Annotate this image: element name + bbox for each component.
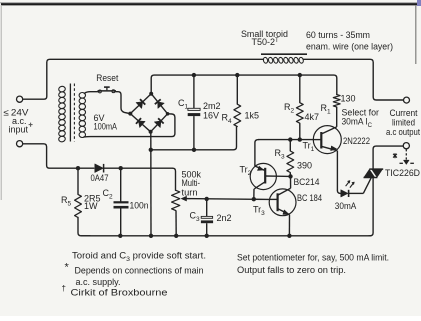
- svg-text:limited: limited: [392, 118, 415, 128]
- svg-text:BC214: BC214: [294, 177, 320, 187]
- svg-text:Set potentiometer for, say, 50: Set potentiometer for, say, 500 mA limit…: [237, 252, 389, 262]
- svg-text:30mA: 30mA: [335, 201, 357, 212]
- svg-text:60 turns - 35mm: 60 turns - 35mm: [306, 30, 370, 40]
- svg-text:4k7: 4k7: [305, 112, 320, 122]
- svg-text:1W: 1W: [84, 201, 98, 211]
- svg-text:a.c output: a.c output: [386, 127, 420, 137]
- svg-text:390: 390: [297, 161, 312, 171]
- svg-text:Cirkit of Broxbourne: Cirkit of Broxbourne: [71, 288, 168, 298]
- svg-text:enam. wire (one layer): enam. wire (one layer): [306, 42, 393, 52]
- svg-text:0A47: 0A47: [91, 173, 109, 183]
- svg-text:130: 130: [341, 94, 356, 104]
- svg-text:1k5: 1k5: [245, 110, 260, 120]
- svg-text:a.c. supply.: a.c. supply.: [76, 277, 121, 287]
- svg-text:turn: turn: [182, 187, 198, 197]
- svg-text:2n2: 2n2: [217, 213, 232, 223]
- svg-text:Reset: Reset: [96, 73, 118, 83]
- svg-text:2m2: 2m2: [203, 101, 221, 111]
- svg-text:16V: 16V: [203, 111, 219, 121]
- svg-text:2N2222: 2N2222: [343, 136, 370, 146]
- svg-text:100mA: 100mA: [94, 121, 118, 131]
- svg-text:Current: Current: [390, 108, 418, 118]
- svg-text:T50-2T: T50-2T: [252, 37, 280, 47]
- svg-text:TIC226D: TIC226D: [385, 168, 420, 178]
- svg-text:100n: 100n: [130, 201, 149, 211]
- svg-text:BC 184: BC 184: [297, 193, 322, 203]
- svg-text:Depends on connections of main: Depends on connections of main: [75, 266, 204, 276]
- svg-text:*: *: [65, 262, 70, 274]
- svg-text:Output falls to zero on trip.: Output falls to zero on trip.: [237, 265, 346, 275]
- svg-text:input: input: [9, 124, 29, 134]
- svg-text:†: †: [62, 284, 66, 293]
